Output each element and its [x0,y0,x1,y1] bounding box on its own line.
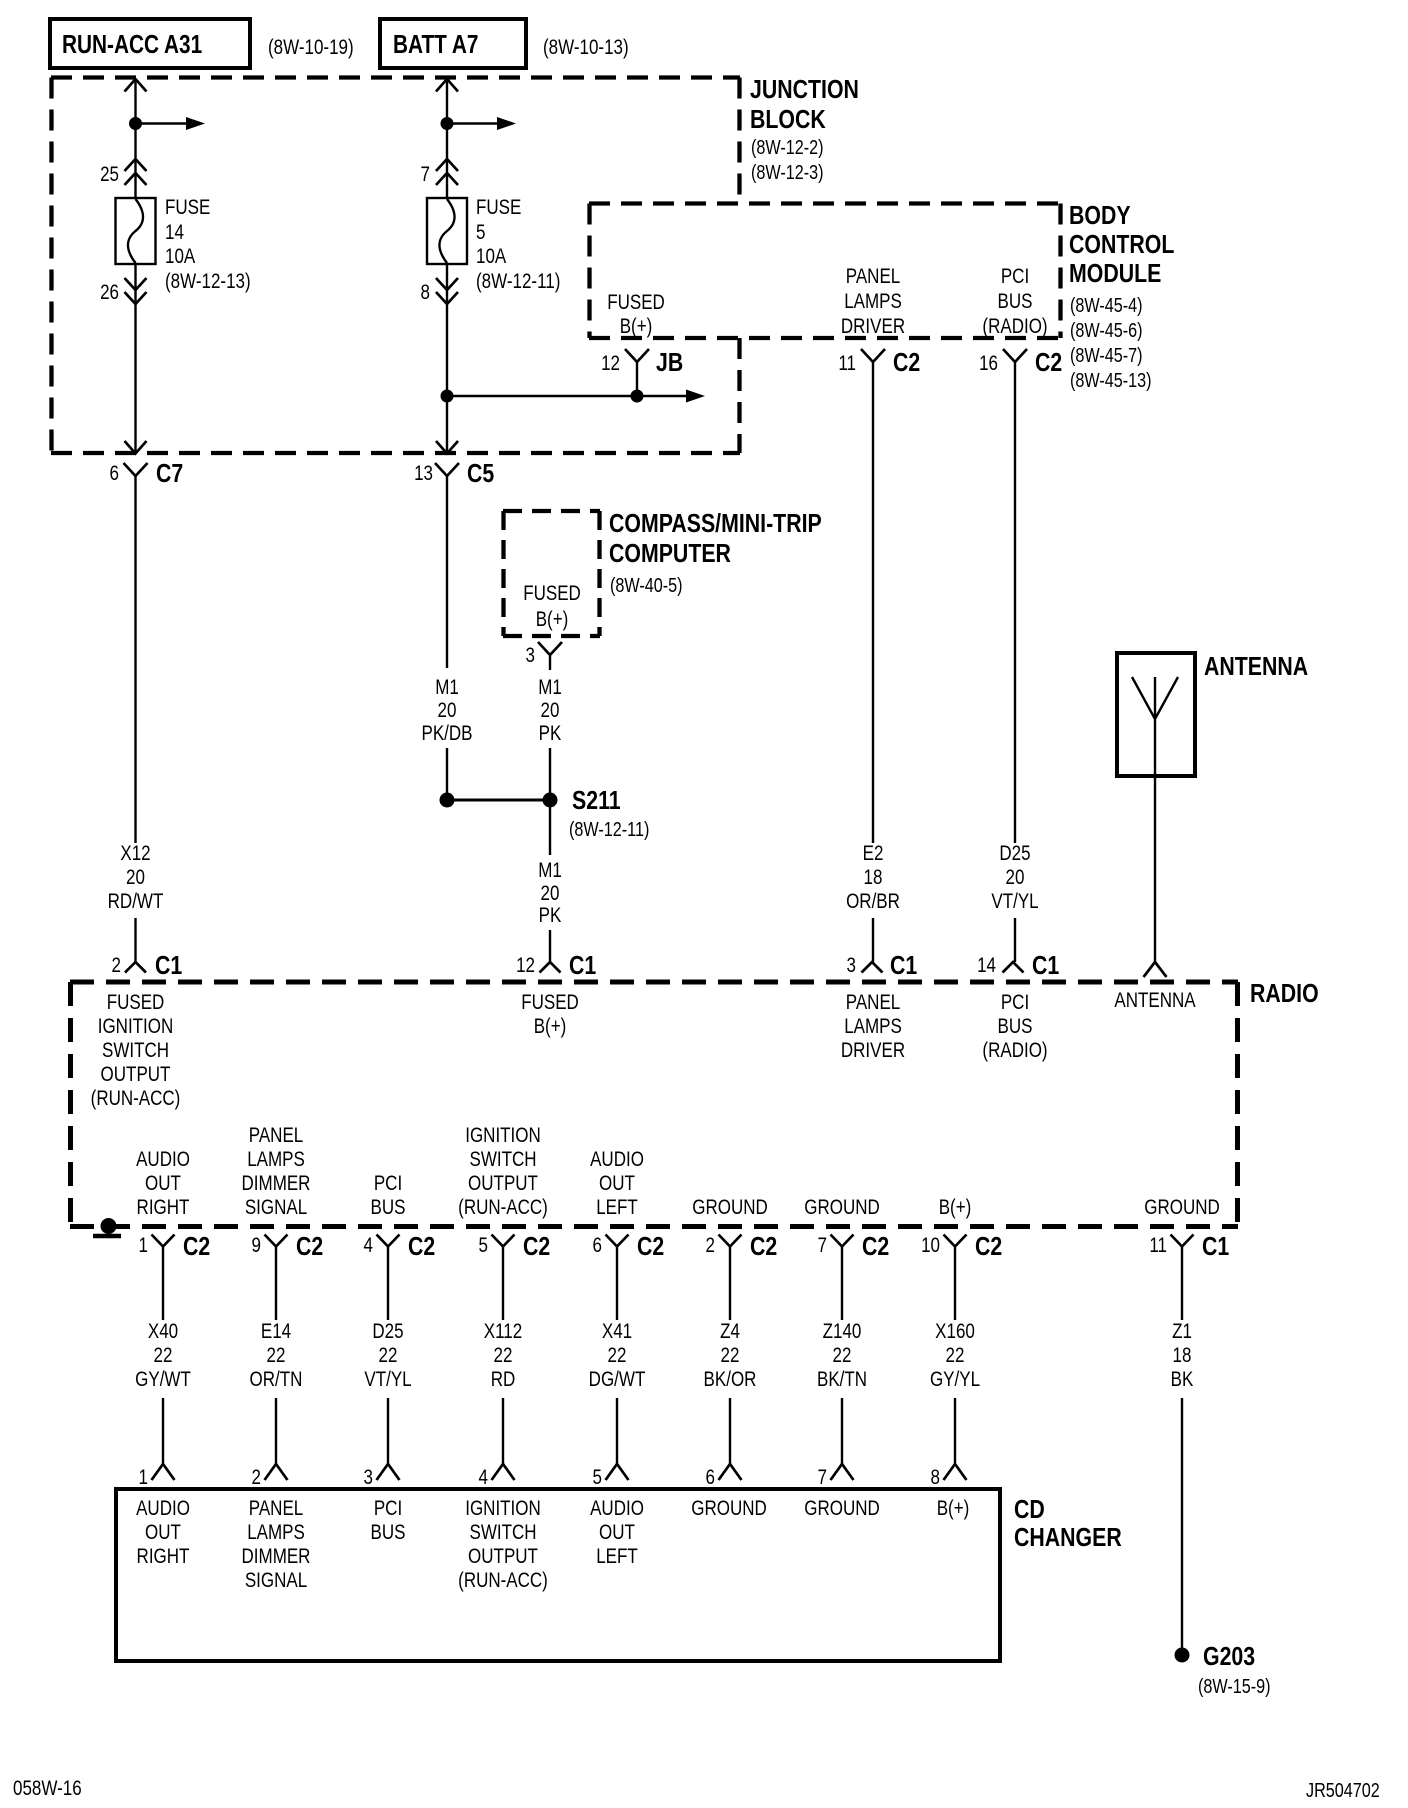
CD pin label audio out right [136,1497,190,1568]
connector C1 pin 14 (radio PCI bus) [977,951,1059,981]
svg-text:B(+): B(+) [939,1196,972,1219]
svg-text:20: 20 [541,699,560,722]
svg-text:DIMMER: DIMMER [242,1172,311,1195]
svg-text:Z1: Z1 [1172,1320,1192,1343]
junction block dashed box [51,78,740,454]
svg-text:C2: C2 [893,348,920,378]
svg-text:12: 12 [516,954,535,977]
fuse F14 [116,198,156,264]
wire X160 22 GY/YL [930,1247,980,1465]
svg-text:2: 2 [252,1466,261,1489]
svg-text:BATT A7: BATT A7 [393,30,478,59]
svg-text:22: 22 [267,1344,286,1367]
svg-text:RADIO: RADIO [1250,979,1319,1009]
connector C2 pin 10 (radio) [921,1232,1002,1262]
svg-text:(8W-12-11): (8W-12-11) [569,818,649,840]
svg-text:ANTENNA: ANTENNA [1114,989,1195,1012]
svg-text:BUS: BUS [371,1196,406,1219]
svg-text:IGNITION: IGNITION [465,1124,541,1147]
svg-text:22: 22 [608,1344,627,1367]
svg-text:OUT: OUT [145,1172,181,1195]
radio pin label audio out right [136,1148,190,1219]
wire E2 upper segment [872,362,874,843]
junction dot on radio bottom edge [93,1218,121,1236]
svg-text:(RUN-ACC): (RUN-ACC) [458,1196,548,1219]
svg-text:13: 13 [414,462,433,485]
svg-text:2: 2 [112,954,121,977]
wire Z140 22 BK/TN [817,1247,867,1465]
svg-text:20: 20 [541,882,560,905]
svg-text:CHANGER: CHANGER [1014,1523,1122,1553]
wire X41 22 DG/WT [589,1247,646,1465]
svg-text:OUT: OUT [599,1521,635,1544]
svg-text:PANEL: PANEL [249,1497,303,1520]
radio pin label panel lamps dimmer signal [242,1124,311,1219]
svg-text:22: 22 [721,1344,740,1367]
svg-text:FUSE: FUSE [165,196,210,219]
svg-text:(RADIO): (RADIO) [982,1039,1047,1062]
svg-text:C1: C1 [1202,1232,1229,1262]
svg-text:B(+): B(+) [937,1497,970,1520]
terminal 7 [421,159,458,186]
connector JB pin 12 [601,348,683,392]
svg-text:(8W-15-9): (8W-15-9) [1198,1675,1271,1697]
svg-text:BK: BK [1171,1368,1194,1391]
arrow feed to other circuits [136,122,188,124]
svg-text:C2: C2 [408,1232,435,1262]
svg-text:2: 2 [706,1234,715,1257]
radio pin label audio out left [590,1148,644,1219]
svg-text:(RUN-ACC): (RUN-ACC) [458,1569,548,1592]
svg-text:C2: C2 [523,1232,550,1262]
svg-text:BUS: BUS [371,1521,406,1544]
svg-text:VT/YL: VT/YL [364,1368,411,1391]
svg-text:22: 22 [494,1344,513,1367]
wire X12 20 RD/WT [108,476,164,962]
svg-text:(8W-12-3): (8W-12-3) [751,161,824,183]
svg-text:058W-16: 058W-16 [13,1777,82,1800]
svg-text:7: 7 [818,1466,827,1489]
svg-text:10: 10 [921,1234,940,1257]
svg-text:BUS: BUS [998,1015,1033,1038]
svg-text:4: 4 [479,1466,489,1489]
svg-text:G203: G203 [1203,1642,1255,1672]
svg-text:DRIVER: DRIVER [841,1039,905,1062]
svg-text:10A: 10A [165,245,195,268]
svg-text:B(+): B(+) [534,1015,567,1038]
svg-text:14: 14 [165,221,184,244]
wire E14 22 OR/TN [250,1247,303,1465]
svg-text:3: 3 [364,1466,373,1489]
svg-text:DG/WT: DG/WT [589,1368,646,1391]
ground G203 [1175,1642,1271,1697]
svg-text:14: 14 [977,954,996,977]
svg-text:(RADIO): (RADIO) [982,315,1047,338]
antenna symbol [1132,677,1178,962]
CD changer label [1014,1495,1122,1553]
svg-text:(8W-40-5): (8W-40-5) [610,574,683,596]
CD pin label audio out left [590,1497,644,1568]
svg-text:JUNCTION: JUNCTION [750,75,859,105]
junction dot fused B(+) [441,390,454,403]
svg-text:BK/OR: BK/OR [704,1368,757,1391]
svg-text:LAMPS: LAMPS [247,1521,305,1544]
svg-text:B(+): B(+) [536,608,569,631]
wire fused B(+) to JB pin 12 with arrow [447,395,687,397]
svg-text:MODULE: MODULE [1069,259,1161,289]
svg-text:PCI: PCI [374,1172,402,1195]
connector C2 pin 6 (radio) [593,1232,665,1262]
svg-text:OUT: OUT [599,1172,635,1195]
junction dot B [441,117,454,130]
svg-text:BUS: BUS [998,290,1033,313]
svg-text:(8W-12-2): (8W-12-2) [751,136,824,158]
wire M1 20 PK from compass [538,676,562,796]
svg-text:AUDIO: AUDIO [590,1148,644,1171]
radio dashed box [70,982,1238,1227]
svg-text:D25: D25 [372,1320,403,1343]
svg-text:Z140: Z140 [823,1320,862,1343]
svg-text:20: 20 [1006,866,1025,889]
CD pin label panel lamps dimmer signal [242,1497,311,1592]
svg-text:AUDIO: AUDIO [590,1497,644,1520]
svg-text:FUSED: FUSED [607,291,665,314]
svg-text:OUT: OUT [145,1521,181,1544]
junction block label [750,75,859,183]
wire Z4 22 BK/OR [704,1247,757,1465]
connector C1 pin 11 (radio ground) [1149,1232,1229,1262]
connector CD changer pin 1 [139,1464,175,1489]
connector C2 pin 1 (radio) [139,1232,211,1262]
wire BATT feed into junction block [436,79,458,198]
svg-text:ANTENNA: ANTENNA [1204,652,1308,682]
svg-text:VT/YL: VT/YL [991,890,1038,913]
connector C2 pin 5 (radio) [479,1232,551,1262]
svg-text:GROUND: GROUND [692,1196,768,1219]
svg-text:BODY: BODY [1069,201,1131,231]
svg-text:3: 3 [847,954,856,977]
connector CD changer pin 8 [931,1464,967,1489]
svg-text:X160: X160 [935,1320,975,1343]
svg-text:CONTROL: CONTROL [1069,230,1174,260]
compass fused B(+) pin label [523,582,581,631]
svg-text:GROUND: GROUND [804,1497,880,1520]
svg-text:1: 1 [139,1466,148,1489]
connector CD changer pin 7 [818,1464,854,1489]
svg-text:22: 22 [946,1344,965,1367]
svg-text:B(+): B(+) [620,315,653,338]
svg-text:(8W-45-7): (8W-45-7) [1070,344,1143,366]
svg-text:SWITCH: SWITCH [469,1148,536,1171]
svg-text:C2: C2 [862,1232,889,1262]
svg-text:20: 20 [438,699,457,722]
connector C2 pin 16 (PCI bus) [979,348,1062,378]
radio pin label PCI bus [371,1172,406,1219]
svg-text:LEFT: LEFT [596,1196,638,1219]
wire D25 upper segment [1014,362,1016,843]
body control module dashed box [589,204,1061,339]
BCM fused B(+) pin label [607,291,665,338]
svg-text:6: 6 [110,462,119,485]
radio pin label PCI bus (radio) [982,991,1047,1062]
wire E2 18 OR/BR [846,842,900,962]
wire D25 22 VT/YL [364,1247,411,1465]
wire RUN-ACC feed into junction block [125,79,147,198]
svg-text:FUSED: FUSED [523,582,581,605]
svg-text:S211: S211 [572,786,621,816]
body control module label [1069,201,1174,391]
svg-text:C2: C2 [637,1232,664,1262]
svg-text:C2: C2 [975,1232,1002,1262]
svg-text:5: 5 [593,1466,602,1489]
svg-text:1: 1 [139,1234,148,1257]
svg-text:OUTPUT: OUTPUT [468,1545,538,1568]
wire X112 22 RD [484,1247,522,1465]
svg-text:10A: 10A [476,245,506,268]
svg-text:20: 20 [126,866,145,889]
wire fuse 14 to C7 [134,264,136,452]
svg-text:BLOCK: BLOCK [750,105,826,135]
CD pin label PCI bus [371,1497,406,1544]
svg-text:JB: JB [656,348,683,378]
svg-text:RD: RD [491,1368,516,1391]
svg-text:C2: C2 [1035,348,1062,378]
svg-text:26: 26 [100,281,119,304]
svg-text:(8W-12-11): (8W-12-11) [476,270,560,293]
BCM PCI bus pin label [982,265,1047,338]
svg-text:PCI: PCI [1001,265,1029,288]
svg-text:LAMPS: LAMPS [247,1148,305,1171]
svg-text:JR504702: JR504702 [1306,1779,1380,1801]
radio pin label panel lamps driver [841,991,905,1062]
svg-text:E14: E14 [261,1320,292,1343]
svg-text:7: 7 [818,1234,827,1257]
svg-text:PCI: PCI [1001,991,1029,1014]
junction dot A [129,117,142,130]
terminal 26 [100,278,146,304]
svg-text:RUN-ACC A31: RUN-ACC A31 [62,30,202,59]
svg-text:(8W-10-19): (8W-10-19) [268,36,354,59]
svg-text:OR/TN: OR/TN [250,1368,303,1391]
svg-text:6: 6 [706,1466,715,1489]
svg-text:COMPASS/MINI-TRIP: COMPASS/MINI-TRIP [609,509,822,539]
svg-text:D25: D25 [999,842,1030,865]
compass/mini-trip computer dashed box [503,511,600,636]
BCM panel lamps driver pin label [841,265,905,338]
svg-text:GY/YL: GY/YL [930,1368,980,1391]
svg-text:C5: C5 [467,459,494,489]
svg-text:X40: X40 [148,1320,178,1343]
svg-text:25: 25 [100,163,119,186]
svg-text:PK: PK [539,904,562,927]
svg-text:E2: E2 [863,842,884,865]
connector CD changer pin 4 [479,1464,515,1489]
svg-text:M1: M1 [538,676,562,699]
svg-text:18: 18 [864,866,883,889]
svg-text:OR/BR: OR/BR [846,890,900,913]
radio pin label ignition switch output [458,1124,548,1219]
connector C2 pin 4 (radio) [364,1232,436,1262]
svg-text:8: 8 [931,1466,940,1489]
svg-text:X12: X12 [120,842,150,865]
arrow crossing junction block edge left [125,441,147,454]
svg-text:M1: M1 [538,859,562,882]
svg-text:(RUN-ACC): (RUN-ACC) [91,1087,181,1110]
connector C1 pin 2 (radio ignition feed) [112,951,183,981]
svg-text:GROUND: GROUND [691,1497,767,1520]
connector CD changer pin 6 [706,1464,742,1489]
svg-text:DRIVER: DRIVER [841,315,905,338]
fuse F5 [427,198,467,264]
svg-text:OUTPUT: OUTPUT [468,1172,538,1195]
svg-text:(8W-45-4): (8W-45-4) [1070,294,1143,316]
svg-text:RIGHT: RIGHT [137,1545,190,1568]
svg-text:C7: C7 [156,459,183,489]
svg-text:C1: C1 [155,951,182,981]
svg-text:SIGNAL: SIGNAL [245,1569,307,1592]
svg-text:22: 22 [154,1344,173,1367]
svg-text:SIGNAL: SIGNAL [245,1196,307,1219]
connector C2 pin 2 (radio) [706,1232,778,1262]
svg-text:RD/WT: RD/WT [108,890,164,913]
junction dot JB stem [631,390,644,403]
svg-text:(8W-10-13): (8W-10-13) [543,36,629,59]
svg-text:PCI: PCI [374,1497,402,1520]
wire fuse 5 down to C5 [446,264,448,452]
arrow feed to other circuits B [447,122,498,124]
svg-text:FUSED: FUSED [107,991,165,1014]
svg-text:22: 22 [379,1344,398,1367]
connector C2 pin 9 (radio) [252,1232,324,1262]
terminal 8 [421,278,458,304]
compass/mini-trip computer label [609,509,822,596]
antenna connector at radio [1144,962,1167,977]
svg-text:9: 9 [252,1234,261,1257]
svg-text:C1: C1 [1032,951,1059,981]
svg-text:X112: X112 [484,1320,522,1343]
svg-text:M1: M1 [435,676,459,699]
compass connector pin 3 [526,642,562,670]
svg-text:GY/WT: GY/WT [135,1368,191,1391]
svg-text:PK/DB: PK/DB [421,722,472,745]
svg-text:C1: C1 [890,951,917,981]
CD pin label ignition switch output [458,1497,548,1592]
svg-text:6: 6 [593,1234,602,1257]
fuse 5 label [476,196,560,293]
svg-text:22: 22 [833,1344,852,1367]
svg-text:PANEL: PANEL [846,991,900,1014]
svg-text:(8W-12-13): (8W-12-13) [165,270,251,293]
svg-text:C2: C2 [750,1232,777,1262]
svg-text:RIGHT: RIGHT [137,1196,190,1219]
svg-text:LAMPS: LAMPS [844,1015,902,1038]
fuse 14 label [165,196,251,293]
power feed box BATT A7 [380,19,526,68]
wire X40 22 GY/WT [135,1247,191,1465]
svg-text:C2: C2 [183,1232,210,1262]
svg-text:Z4: Z4 [720,1320,740,1343]
svg-text:X41: X41 [602,1320,632,1343]
svg-text:COMPUTER: COMPUTER [609,539,731,569]
wire Z1 18 BK [1171,1247,1194,1651]
svg-text:LAMPS: LAMPS [844,290,902,313]
svg-text:GROUND: GROUND [804,1196,880,1219]
svg-text:OUTPUT: OUTPUT [101,1063,171,1086]
svg-text:3: 3 [526,644,535,667]
CD changer box [116,1489,1000,1661]
splice S211 [440,786,650,840]
svg-text:CD: CD [1014,1495,1045,1525]
svg-text:PANEL: PANEL [249,1124,303,1147]
connector C5 pin 13 [414,459,494,489]
radio pin label fused ignition switch output [91,991,181,1110]
svg-text:11: 11 [1149,1234,1167,1257]
svg-text:DIMMER: DIMMER [242,1545,311,1568]
wire D25 20 VT/YL [991,842,1038,962]
svg-text:C1: C1 [569,951,596,981]
connector C7 pin 6 [110,459,184,489]
svg-text:C2: C2 [296,1232,323,1262]
svg-text:12: 12 [601,352,620,375]
wire M1 20 PK/DB from C5 [421,476,472,796]
arrow crossing junction block edge right [436,441,458,454]
svg-text:18: 18 [1173,1344,1192,1367]
svg-text:FUSED: FUSED [521,991,579,1014]
svg-text:5: 5 [476,221,485,244]
svg-text:IGNITION: IGNITION [465,1497,541,1520]
svg-text:11: 11 [838,352,856,375]
svg-text:GROUND: GROUND [1144,1196,1220,1219]
connector CD changer pin 5 [593,1464,629,1489]
svg-text:SWITCH: SWITCH [469,1521,536,1544]
svg-text:8: 8 [421,281,430,304]
svg-text:PK: PK [539,722,562,745]
svg-text:4: 4 [364,1234,374,1257]
svg-text:AUDIO: AUDIO [136,1497,190,1520]
radio pin label fused B(+) [521,991,579,1038]
svg-text:SWITCH: SWITCH [102,1039,169,1062]
svg-text:7: 7 [421,163,430,186]
antenna box [1117,653,1195,776]
connector CD changer pin 2 [252,1464,288,1489]
svg-text:FUSE: FUSE [476,196,521,219]
svg-text:IGNITION: IGNITION [98,1015,174,1038]
terminal 25 [100,159,146,186]
svg-text:PANEL: PANEL [846,265,900,288]
connector CD changer pin 3 [364,1464,400,1489]
connector C2 pin 7 (radio) [818,1232,890,1262]
svg-text:5: 5 [479,1234,488,1257]
svg-text:LEFT: LEFT [596,1545,638,1568]
svg-text:(8W-45-13): (8W-45-13) [1070,369,1152,391]
svg-text:16: 16 [979,352,998,375]
connector C1 pin 12 (radio fused B+) [516,951,596,981]
wire M1 20 PK to radio pin 12 [538,804,562,962]
svg-text:(8W-45-6): (8W-45-6) [1070,319,1143,341]
connector C2 pin 11 (panel lamps driver) [838,348,920,378]
svg-text:AUDIO: AUDIO [136,1148,190,1171]
connector C1 pin 3 (radio panel lamps) [847,951,918,981]
svg-text:BK/TN: BK/TN [817,1368,867,1391]
power feed box RUN-ACC A31 [50,19,250,68]
